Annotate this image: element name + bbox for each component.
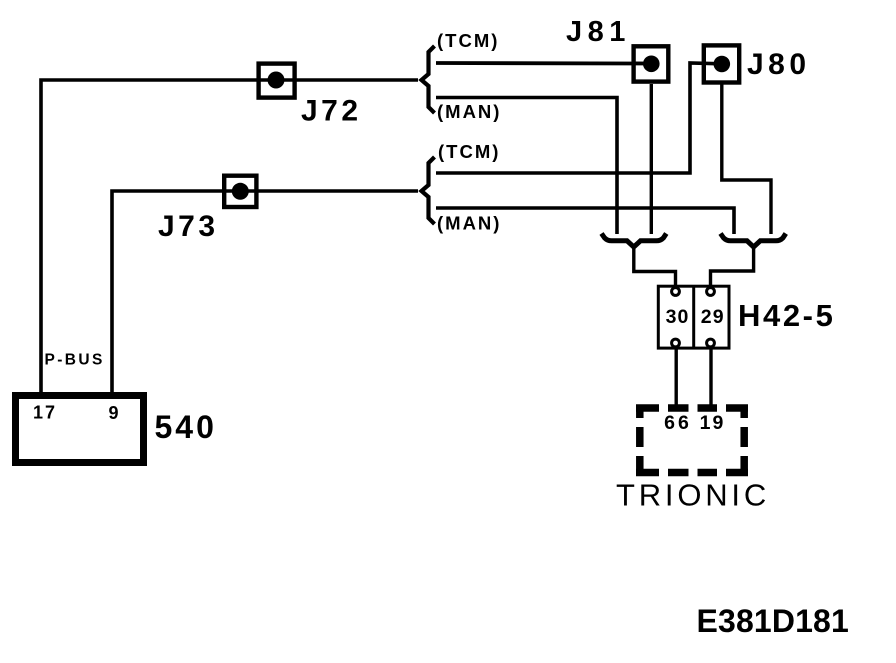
wire H42-5 pin 30 down to TRIONIC pin 66 [675, 343, 678, 407]
junction J80 [704, 45, 811, 82]
svg-text:29: 29 [701, 306, 725, 328]
TRIONIC dashed box [636, 405, 748, 477]
wire left bracket to H42-5 pin 30 [634, 246, 676, 291]
connector H42-5 [658, 285, 835, 349]
left connector bracket [602, 234, 667, 248]
svg-text:(TCM): (TCM) [437, 30, 499, 51]
wire TCM2 brace2 up to J80 [436, 63, 722, 173]
svg-text:H42-5: H42-5 [738, 298, 835, 333]
right connector bracket [721, 234, 786, 248]
brace 1 [422, 46, 435, 113]
wire right bracket to H42-5 pin 29 [711, 246, 754, 291]
svg-text:(TCM): (TCM) [438, 141, 500, 162]
svg-text:17: 17 [33, 403, 57, 423]
svg-text:J80: J80 [747, 48, 811, 81]
svg-text:30: 30 [666, 306, 690, 328]
junction J73 [158, 176, 256, 243]
svg-text:J73: J73 [158, 210, 219, 243]
wire MAN1 brace1 down to left connector bracket [436, 98, 617, 235]
ECU box 540 [16, 352, 217, 463]
junction J81 [566, 16, 668, 82]
wire TCM1 brace1 to J81 [436, 61, 651, 65]
wire J81 down to left connector bracket [650, 84, 653, 234]
brace 2 [422, 157, 435, 224]
svg-text:66: 66 [664, 412, 692, 434]
svg-text:P-BUS: P-BUS [45, 352, 105, 369]
junction J72 [259, 64, 362, 128]
wire J80 down to right connector bracket [722, 84, 771, 234]
svg-text:J72: J72 [301, 95, 362, 128]
wire 540 pin17 to J72 to brace1 [41, 80, 418, 392]
svg-text:J81: J81 [566, 16, 631, 48]
wire H42-5 pin 29 down to TRIONIC pin 19 [709, 343, 712, 407]
svg-text:19: 19 [700, 412, 726, 434]
svg-text:E381D181: E381D181 [697, 603, 849, 639]
svg-text:TRIONIC: TRIONIC [616, 478, 770, 513]
svg-text:(MAN): (MAN) [437, 101, 501, 122]
svg-text:9: 9 [109, 403, 119, 423]
wire MAN2 brace2 down to right connector bracket [436, 208, 734, 234]
svg-text:(MAN): (MAN) [437, 213, 501, 234]
wire 540 pin9 to J73 to brace2 [112, 191, 418, 392]
svg-text:540: 540 [155, 409, 217, 445]
